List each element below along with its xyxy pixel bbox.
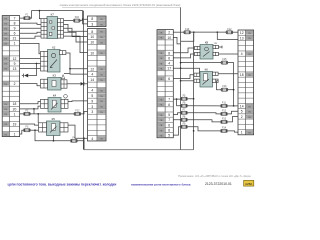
svg-text:9: 9 — [14, 27, 16, 31]
svg-text:К4: К4 — [53, 93, 57, 97]
svg-text:7: 7 — [168, 98, 170, 102]
svg-text:6: 6 — [168, 103, 170, 107]
svg-text:14: 14 — [90, 78, 94, 82]
svg-text:F12: F12 — [222, 109, 227, 112]
svg-text:13: 13 — [13, 67, 17, 71]
svg-text:F10: F10 — [185, 28, 190, 31]
svg-text:F16: F16 — [75, 16, 80, 19]
svg-text:F14: F14 — [222, 126, 227, 129]
svg-text:5: 5 — [241, 110, 243, 114]
svg-text:21: 21 — [13, 37, 17, 41]
svg-text:18: 18 — [240, 73, 244, 77]
svg-text:1: 1 — [14, 42, 16, 46]
svg-text:5: 5 — [168, 134, 170, 138]
svg-text:10: 10 — [90, 41, 94, 45]
svg-text:Примечание: НО-«Р»-АВТОВАЗ и с: Примечание: НО-«Р»-АВТОВАЗ и схема НО «Д… — [178, 174, 251, 178]
svg-text:2: 2 — [241, 115, 243, 119]
svg-text:6: 6 — [14, 32, 16, 36]
svg-text:13: 13 — [240, 36, 244, 40]
svg-text:8: 8 — [91, 30, 93, 34]
svg-text:F16: F16 — [222, 85, 227, 88]
svg-text:9: 9 — [14, 62, 16, 66]
svg-text:4: 4 — [91, 73, 93, 77]
svg-text:8: 8 — [168, 129, 170, 133]
svg-text:1: 1 — [14, 112, 16, 116]
svg-text:4: 4 — [91, 137, 93, 141]
svg-text:6: 6 — [168, 123, 170, 127]
svg-text:12: 12 — [13, 57, 17, 61]
svg-text:2: 2 — [14, 82, 16, 86]
svg-text:2123-3722010-01: 2123-3722010-01 — [205, 182, 232, 186]
svg-text:4: 4 — [91, 89, 93, 93]
svg-text:5: 5 — [91, 94, 93, 98]
svg-text:К6: К6 — [205, 67, 209, 71]
svg-text:3: 3 — [91, 110, 93, 114]
svg-text:наименование реле монтажного б: наименование реле монтажного блока — [131, 182, 191, 186]
svg-text:8: 8 — [168, 51, 170, 55]
svg-text:F15: F15 — [222, 58, 227, 61]
svg-text:17: 17 — [167, 67, 171, 71]
svg-text:7: 7 — [168, 118, 170, 122]
svg-text:5: 5 — [168, 113, 170, 117]
svg-text:F11: F11 — [222, 101, 227, 104]
svg-text:10: 10 — [90, 51, 94, 55]
svg-text:6: 6 — [168, 77, 170, 81]
svg-text:F12: F12 — [75, 109, 80, 112]
svg-text:12: 12 — [90, 67, 94, 71]
svg-text:4: 4 — [241, 52, 243, 56]
svg-text:9: 9 — [91, 99, 93, 103]
svg-text:12: 12 — [240, 31, 244, 35]
svg-text:НИВА: НИВА — [245, 182, 252, 186]
svg-text:3: 3 — [91, 23, 93, 27]
svg-text:18: 18 — [13, 102, 17, 106]
svg-text:10: 10 — [167, 36, 171, 40]
svg-text:7: 7 — [14, 17, 16, 21]
svg-text:К5: К5 — [52, 117, 56, 121]
svg-text:20: 20 — [13, 107, 17, 111]
svg-text:схема электрических соединений: схема электрических соединений монтажног… — [60, 3, 181, 7]
svg-text:19: 19 — [13, 122, 17, 126]
svg-text:К8: К8 — [205, 40, 209, 44]
svg-text:10: 10 — [90, 35, 94, 39]
svg-text:14: 14 — [240, 105, 244, 109]
svg-text:1: 1 — [14, 132, 16, 136]
svg-text:6: 6 — [168, 56, 170, 60]
svg-text:4: 4 — [168, 62, 170, 66]
svg-text:3: 3 — [91, 105, 93, 109]
svg-text:F13: F13 — [222, 117, 227, 120]
svg-text:8: 8 — [14, 22, 16, 26]
svg-text:К2: К2 — [52, 45, 56, 49]
svg-text:цепи постоянного тока. выходн: цепи постоянного тока. выходные зажимы п… — [8, 182, 117, 186]
svg-text:1: 1 — [241, 131, 243, 135]
svg-text:К7: К7 — [51, 12, 55, 16]
svg-text:8: 8 — [91, 17, 93, 21]
svg-text:2: 2 — [168, 31, 170, 35]
svg-text:К3: К3 — [53, 73, 57, 77]
svg-text:F12: F12 — [227, 28, 232, 31]
